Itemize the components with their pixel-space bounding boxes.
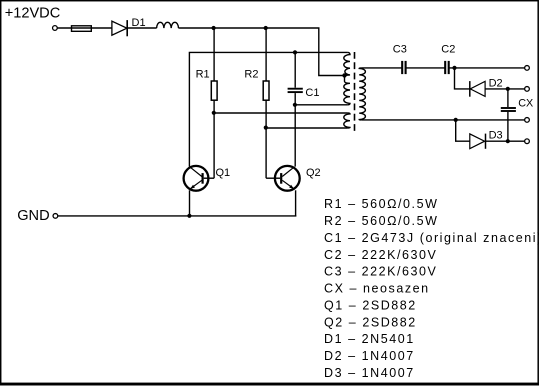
svg-text:C3 – 222K/630V: C3 – 222K/630V — [324, 265, 437, 279]
wire C2 node down to D2 — [455, 68, 470, 89]
wire Q1 collector riser and upper horizontal to transformer primary top — [189, 52, 347, 166]
svg-text:D3: D3 — [489, 129, 503, 141]
svg-text:C2 – 222K/630V: C2 – 222K/630V — [324, 248, 437, 262]
wire R2 top lead — [265, 28, 267, 81]
terminal output 3 — [525, 118, 530, 123]
node junction secondary bottom / D3 branch — [454, 118, 458, 122]
svg-text:CX – neosazen: CX – neosazen — [324, 282, 430, 296]
wire C3 to C2 — [406, 67, 446, 69]
svg-text:CX: CX — [518, 97, 533, 109]
wire primary bottom end to node — [295, 104, 348, 106]
capacitor C3 — [402, 61, 405, 74]
transformer T1 core dashed line — [354, 52, 356, 132]
node junction D2 / CX top — [506, 87, 510, 91]
svg-text:D2: D2 — [489, 77, 503, 89]
wire ground rail — [58, 215, 296, 217]
svg-text:Q1: Q1 — [216, 167, 231, 179]
transistor Q2 (base left) — [275, 166, 300, 191]
svg-text:D1: D1 — [132, 17, 146, 29]
wire diode D1 to inductor — [127, 27, 156, 29]
terminal GND — [53, 214, 58, 219]
wire down to D3 — [456, 120, 470, 141]
svg-text:Q2 – 2SD882: Q2 – 2SD882 — [324, 315, 417, 329]
inductor L1 — [157, 22, 179, 28]
parts list text — [324, 197, 539, 380]
svg-text:D2 – 1N4007: D2 – 1N4007 — [324, 349, 415, 363]
svg-text:Q2: Q2 — [306, 167, 321, 179]
capacitor C1 — [288, 89, 303, 92]
wire terminal to diode D1 — [57, 27, 112, 29]
wire Q2 base lead — [266, 177, 280, 179]
resistor R2 — [263, 81, 269, 100]
svg-text:C1 – 2G473J (original znaceni): C1 – 2G473J (original znaceni) — [324, 231, 539, 245]
transformer T1 primary lower half — [344, 75, 350, 104]
wire inductor to corner above transformer tap — [179, 28, 343, 76]
wire D3 to output terminal 4 — [486, 140, 525, 142]
svg-text:R2: R2 — [244, 69, 258, 81]
node junction R1 bottom — [212, 111, 216, 115]
node junction D3 / CX bottom — [506, 139, 510, 143]
wire C1 top lead — [294, 52, 296, 87]
wire secondary bottom to output terminal 3 — [361, 119, 524, 121]
node junction transformer center tap — [342, 73, 346, 77]
wire R1 top lead — [213, 28, 215, 81]
capacitor CX — [501, 108, 516, 111]
node junction primary bottom / C1 / Q2 collector — [293, 103, 297, 107]
wire CX bottom lead down to D3 node — [507, 112, 509, 141]
transformer T1 primary upper half — [344, 52, 350, 75]
node junction Q1 emitter on ground rail — [187, 214, 191, 218]
diode D2 — [470, 81, 485, 97]
svg-text:R1 – 560Ω/0.5W: R1 – 560Ω/0.5W — [324, 197, 438, 211]
node junction R2 bottom — [264, 126, 268, 130]
svg-text:C3: C3 — [393, 44, 407, 56]
wire R1 bottom to Q1 base column — [213, 100, 215, 178]
wire feedback winding bottom to Q2 base node — [266, 127, 348, 129]
terminal +12V input — [53, 26, 58, 31]
wire R2 bottom to Q2 base column — [265, 100, 267, 178]
wire Q2 emitter to ground rail — [295, 190, 297, 216]
wire Q1 emitter to ground rail — [189, 190, 191, 216]
capacitor C2 — [445, 61, 449, 74]
node junction C1 top — [293, 50, 297, 54]
svg-text:D1 – 2N5401: D1 – 2N5401 — [324, 332, 415, 346]
diode D3 — [470, 134, 486, 149]
fuse F1 — [72, 26, 92, 32]
node junction after C2 — [452, 66, 456, 70]
wire D2 to output terminal 2 — [485, 88, 525, 90]
wire C2 to output terminal 1 — [449, 67, 525, 69]
terminal output 1 — [525, 66, 530, 71]
wire feedback winding top to Q1 base node — [214, 112, 348, 114]
svg-text:+12VDC: +12VDC — [5, 5, 61, 21]
transistor Q1 (mirrored, base right) — [184, 166, 215, 191]
svg-text:R2 – 560Ω/0.5W: R2 – 560Ω/0.5W — [324, 214, 438, 228]
node junction top rail R1 — [212, 26, 216, 30]
node junction top rail R2 — [264, 26, 268, 30]
svg-text:R1: R1 — [196, 69, 210, 81]
wire CX top lead — [507, 89, 509, 107]
resistor R1 — [211, 81, 217, 100]
svg-text:C2: C2 — [441, 44, 455, 56]
svg-text:GND: GND — [17, 208, 49, 224]
terminal output 4 — [525, 139, 530, 144]
svg-text:D3 – 1N4007: D3 – 1N4007 — [324, 366, 415, 380]
diode D1 — [112, 20, 127, 36]
wire C1 bottom lead continuing to Q2 collector — [294, 93, 296, 167]
svg-text:C1: C1 — [305, 87, 319, 99]
transformer T1 secondary winding — [359, 68, 365, 120]
wire secondary top to C3 — [361, 67, 402, 69]
terminal output 2 — [525, 87, 530, 92]
svg-text:Q1 – 2SD882: Q1 – 2SD882 — [324, 298, 417, 312]
transformer T1 feedback winding — [344, 113, 350, 128]
